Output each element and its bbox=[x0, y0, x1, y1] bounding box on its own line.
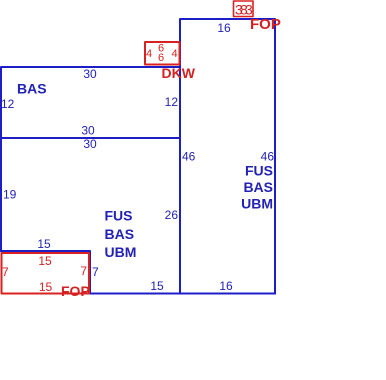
svg-text:30: 30 bbox=[83, 67, 97, 81]
svg-text:46: 46 bbox=[261, 150, 275, 164]
svg-text:FOP: FOP bbox=[61, 283, 90, 299]
svg-text:7: 7 bbox=[80, 264, 87, 278]
svg-text:7: 7 bbox=[92, 265, 99, 279]
svg-text:FUS: FUS bbox=[105, 208, 133, 224]
svg-text:26: 26 bbox=[165, 208, 179, 222]
svg-text:15: 15 bbox=[37, 237, 51, 251]
svg-text:3: 3 bbox=[245, 2, 253, 18]
svg-text:BAS: BAS bbox=[243, 179, 273, 195]
svg-text:4: 4 bbox=[146, 48, 152, 60]
svg-text:15: 15 bbox=[39, 280, 53, 294]
svg-text:19: 19 bbox=[3, 188, 17, 202]
svg-text:30: 30 bbox=[83, 137, 97, 151]
svg-text:BAS: BAS bbox=[17, 81, 47, 97]
svg-text:UBM: UBM bbox=[105, 244, 137, 260]
svg-text:UBM: UBM bbox=[241, 196, 273, 212]
svg-text:15: 15 bbox=[150, 279, 164, 293]
svg-text:46: 46 bbox=[182, 150, 196, 164]
svg-text:12: 12 bbox=[165, 95, 179, 109]
svg-text:30: 30 bbox=[81, 124, 95, 138]
svg-text:4: 4 bbox=[171, 48, 177, 60]
svg-text:BAS: BAS bbox=[105, 226, 135, 242]
svg-text:12: 12 bbox=[1, 97, 15, 111]
svg-text:FUS: FUS bbox=[245, 163, 273, 179]
svg-text:16: 16 bbox=[219, 279, 233, 293]
svg-text:16: 16 bbox=[217, 21, 231, 35]
svg-text:DKW: DKW bbox=[162, 65, 196, 81]
svg-text:FOP: FOP bbox=[250, 16, 281, 33]
svg-text:7: 7 bbox=[2, 265, 9, 279]
svg-text:15: 15 bbox=[38, 254, 52, 268]
svg-text:6: 6 bbox=[158, 52, 164, 64]
